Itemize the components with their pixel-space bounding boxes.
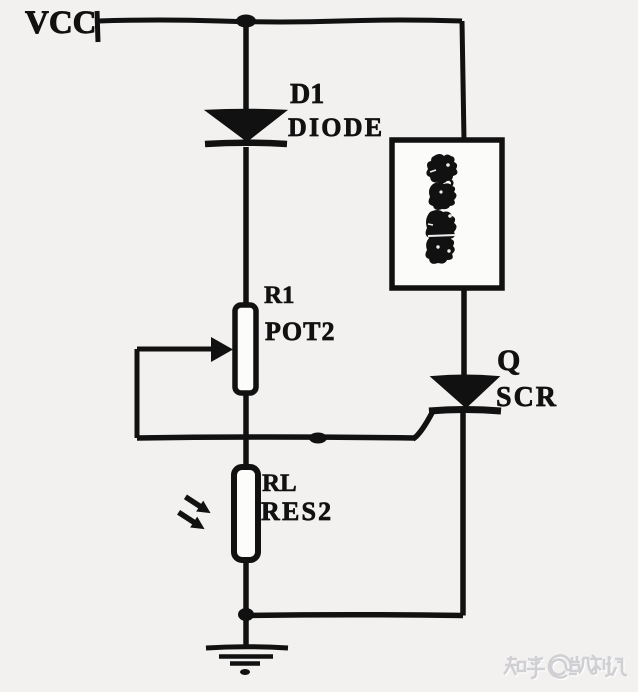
potentiometer R1 body <box>235 305 256 393</box>
detection system box <box>392 140 502 288</box>
wire VCC junction down to diode anode <box>243 21 249 111</box>
box text char 2 (ce) <box>429 180 457 210</box>
wire wiper down left side <box>135 349 140 438</box>
node gate junction <box>309 433 327 444</box>
photoresistor light arrow 1 <box>182 491 214 518</box>
wire gate horizontal <box>137 437 415 438</box>
wire potentiometer to RL <box>243 393 249 469</box>
label Q <box>497 344 520 377</box>
wire top horizontal VCC rail <box>99 20 462 22</box>
wire RL down to bottom junction <box>243 558 249 616</box>
svg-text:POT2: POT2 <box>265 317 335 346</box>
svg-text:VCC: VCC <box>25 5 97 41</box>
wire SCR cathode down <box>460 412 466 616</box>
wire bottom horizontal to SCR cathode <box>246 612 463 618</box>
wire diode cathode to potentiometer <box>243 147 249 306</box>
svg-text:D1: D1 <box>290 79 324 110</box>
ground <box>206 647 288 675</box>
label RL <box>262 470 297 497</box>
wire top right vertical to detection box <box>462 21 464 140</box>
photoresistor RL body <box>234 467 258 560</box>
label DIODE <box>288 113 384 142</box>
svg-text:RL: RL <box>262 470 297 497</box>
photoresistor light arrow 2 <box>175 507 208 535</box>
svg-text:Q: Q <box>497 344 520 377</box>
svg-text:R1: R1 <box>264 282 295 309</box>
label R1 <box>264 282 295 309</box>
watermark zhihu <box>505 656 628 679</box>
label SCR <box>496 382 558 413</box>
diode D1 symbol <box>205 110 287 145</box>
potentiometer R1 wiper arrow <box>137 337 233 362</box>
net VCC label <box>25 5 97 41</box>
label POT2 <box>265 317 335 346</box>
thyristor Q symbol <box>429 376 501 412</box>
wire detection box to SCR anode <box>461 288 467 378</box>
wire junction to ground <box>243 615 249 648</box>
box text char 3 (xi) <box>426 210 457 243</box>
label D1 <box>290 79 324 110</box>
VCC terminal tick <box>97 11 98 42</box>
box text char 1 (jian) <box>426 154 457 183</box>
node top junction <box>236 15 256 28</box>
box text char 4 (tong) <box>425 234 456 264</box>
wire gate diagonal to SCR <box>413 411 433 439</box>
node bottom junction <box>238 608 254 621</box>
svg-text:DIODE: DIODE <box>288 113 384 142</box>
svg-text:SCR: SCR <box>496 382 558 413</box>
svg-text:RES2: RES2 <box>261 497 333 526</box>
label RES2 <box>261 497 333 526</box>
